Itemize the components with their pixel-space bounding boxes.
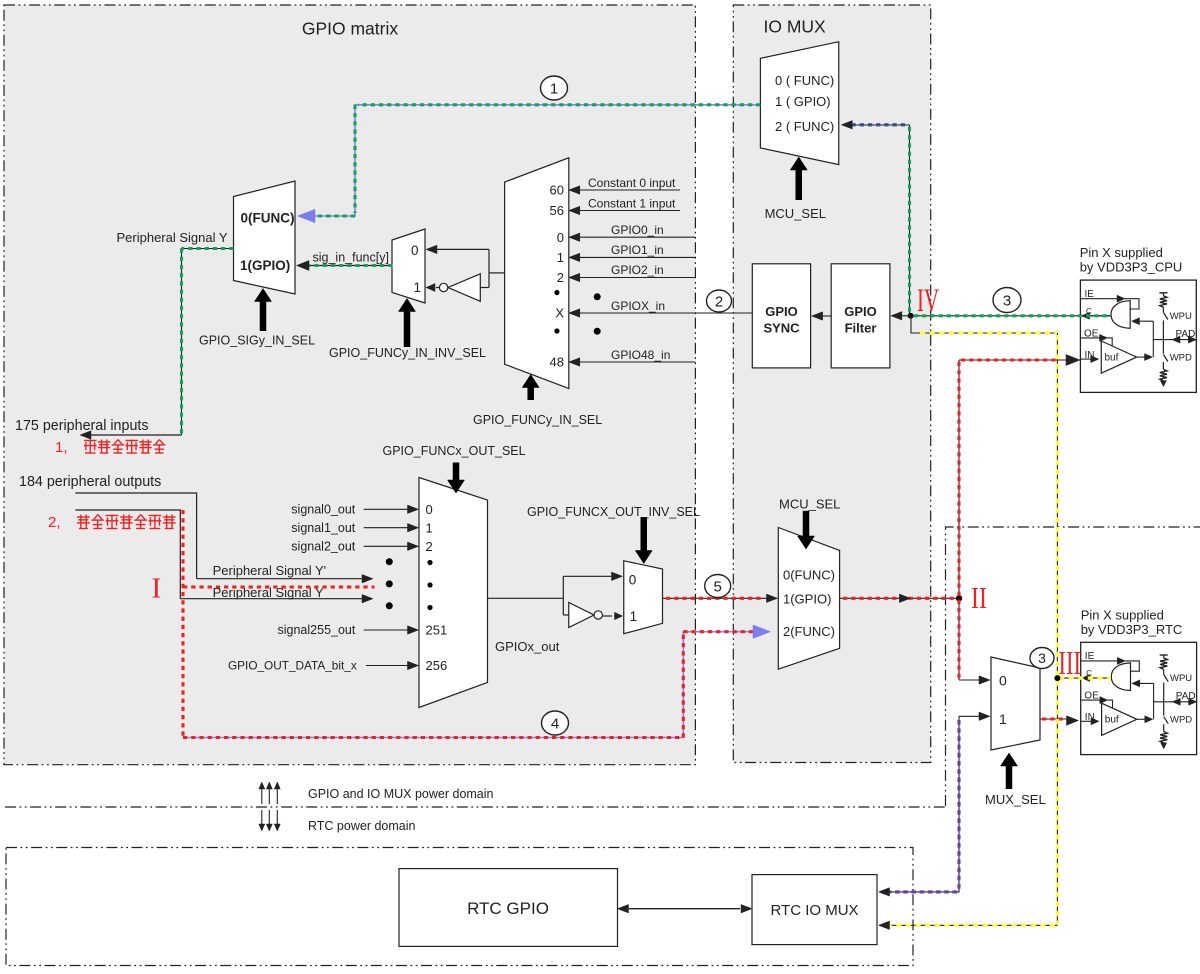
svg-text:MCU_SEL: MCU_SEL	[779, 497, 840, 512]
label GPIO_FUNCy_IN_INV_SEL	[329, 346, 486, 360]
svg-text:Pin X supplied: Pin X supplied	[1081, 608, 1164, 623]
wire RTC GPIO to RTC IO MUX	[618, 904, 753, 913]
svg-text:184 peripheral outputs: 184 peripheral outputs	[19, 474, 161, 490]
svg-text:251: 251	[426, 623, 448, 638]
label 175 peripheral inputs	[15, 418, 149, 434]
svg-text:RTC GPIO: RTC GPIO	[467, 899, 549, 918]
RTC IO MUX block	[752, 875, 877, 945]
node III (red)	[1059, 645, 1082, 682]
input column dots	[594, 293, 601, 334]
svg-text:WPU: WPU	[1170, 673, 1192, 684]
svg-text:GPIO and IO MUX power domain: GPIO and IO MUX power domain	[308, 787, 494, 801]
node II (red)	[971, 580, 987, 615]
mux GPIO_SIGy_IN_SEL labels	[240, 211, 295, 274]
svg-text:GPIO1_in: GPIO1_in	[611, 243, 664, 257]
svg-text:GPIO0_in: GPIO0_in	[611, 223, 664, 237]
GPIO matrix title	[302, 19, 399, 39]
label Peripheral Signal Y (output)	[213, 585, 324, 600]
wire I red vertical	[181, 510, 184, 738]
RTC-domain right box border	[946, 527, 1200, 806]
mux GPIO_FUNCx_OUT_SEL inner dots	[427, 560, 432, 610]
node 2 circled	[707, 290, 732, 312]
label GPIO0_in	[611, 223, 664, 237]
label GPIO and IO MUX power domain	[308, 787, 494, 801]
svg-text:RTC IO MUX: RTC IO MUX	[770, 902, 858, 919]
svg-text:0(FUNC): 0(FUNC)	[783, 568, 835, 583]
power domain up arrows	[259, 782, 281, 804]
mux RTC labels	[999, 673, 1007, 728]
svg-text:GPIO_OUT_DATA_bit_x: GPIO_OUT_DATA_bit_x	[228, 659, 357, 673]
GPIO matrix power-domain box	[4, 5, 695, 765]
svg-text:GPIO: GPIO	[844, 304, 877, 319]
node 3 circled (RTC)	[1030, 648, 1054, 669]
svg-text:signal0_out: signal0_out	[291, 503, 355, 517]
mux IO MUX output labels	[783, 568, 835, 639]
svg-text:60: 60	[550, 183, 564, 198]
svg-text:II: II	[971, 580, 987, 615]
node 5 circled	[705, 575, 731, 598]
mux RTC (MUX_SEL)	[991, 657, 1040, 750]
svg-text:signal1_out: signal1_out	[291, 521, 355, 535]
svg-text:3: 3	[1003, 292, 1011, 309]
label GPIO48_in	[611, 348, 670, 362]
wire red vertical at node II	[958, 360, 960, 680]
svg-text:0: 0	[411, 243, 419, 258]
svg-text:0: 0	[629, 573, 637, 588]
node yellow junction dot	[1054, 675, 1060, 681]
mux GPIO_FUNCy_IN_SEL pin numbers	[550, 183, 565, 370]
node 1 circled	[541, 76, 568, 100]
node II junction dot	[956, 595, 962, 601]
svg-text:by VDD3P3_RTC: by VDD3P3_RTC	[1081, 622, 1183, 637]
svg-text:GPIO48_in: GPIO48_in	[611, 348, 670, 362]
svg-text:PAD: PAD	[1176, 329, 1196, 340]
label GPIO_SIGy_IN_SEL	[199, 334, 315, 348]
svg-text:SYNC: SYNC	[763, 321, 800, 336]
mux GPIO_FUNCy_IN_SEL	[505, 158, 569, 389]
svg-text:GPIO_FUNCy_IN_INV_SEL: GPIO_FUNCy_IN_INV_SEL	[329, 346, 486, 360]
wire 5 to IO MUX out trapezoid	[663, 594, 778, 603]
wire signal1_out	[364, 523, 419, 532]
svg-text:GPIOx_out: GPIOx_out	[495, 639, 560, 654]
svg-text:1: 1	[557, 250, 564, 265]
wire to node II	[840, 594, 959, 603]
wire green vertical	[909, 125, 911, 316]
svg-text:0: 0	[999, 673, 1007, 689]
svg-text:GPIOX_in: GPIOX_in	[611, 299, 665, 313]
wire Peripheral Signal Y (output)	[180, 594, 373, 603]
label MUX_SEL	[985, 792, 1046, 807]
wire Peripheral Signal Y-prime	[197, 574, 373, 583]
svg-text:1: 1	[414, 280, 422, 295]
svg-text:48: 48	[550, 355, 564, 370]
label signal0_out	[291, 503, 355, 517]
svg-text:GPIO2_in: GPIO2_in	[611, 263, 664, 277]
svg-text:0: 0	[557, 230, 564, 245]
wire signal255_out	[364, 626, 419, 635]
svg-text:MCU_SEL: MCU_SEL	[765, 206, 826, 221]
mux GPIO_SIGy_IN_SEL	[234, 181, 296, 294]
svg-text:1: 1	[426, 520, 433, 535]
svg-text:PAD: PAD	[1176, 691, 1196, 702]
wire GPIO_OUT_DATA_bit_x	[366, 661, 419, 670]
mux GPIO_FUNCy_IN_SEL inner dots	[554, 290, 559, 334]
label GPIOX_in	[611, 299, 665, 313]
svg-text:1: 1	[630, 609, 638, 624]
svg-text:2: 2	[426, 539, 433, 554]
mux GPIO_FUNCy_IN_INV_SEL labels	[411, 243, 421, 295]
RTC GPIO block	[399, 869, 618, 947]
svg-text:1: 1	[550, 80, 558, 97]
wire green junction to CPU pad C	[911, 315, 1111, 317]
label GPIO_OUT_DATA_bit_x	[228, 659, 357, 673]
svg-text:WPD: WPD	[1170, 353, 1192, 364]
wire sig_in_func[y]	[297, 261, 393, 271]
wire yellow vertical	[1056, 333, 1058, 925]
wire signal2_out	[364, 542, 419, 551]
svg-text:X: X	[555, 306, 564, 321]
label GPIO1_in	[611, 243, 664, 257]
node IV (red)	[917, 283, 939, 319]
inverter (input path)	[426, 274, 480, 302]
wire peripheral signal Y output (green path)	[182, 249, 234, 436]
svg-text:2 ( FUNC): 2 ( FUNC)	[775, 119, 834, 134]
IO MUX title	[764, 17, 827, 37]
svg-text:WPD: WPD	[1170, 715, 1192, 726]
mux GPIO_FUNCx_OUT_SEL pin numbers	[426, 502, 448, 673]
wire FUNCy out to inv-mux	[426, 245, 505, 287]
svg-text:signal255_out: signal255_out	[278, 623, 356, 637]
wire GPIOX_in	[569, 309, 753, 318]
wire 175 peripheral inputs arrow	[80, 431, 182, 440]
wire signal0_out	[364, 505, 419, 514]
mux GPIO_FUNCX_OUT_INV_SEL labels	[629, 573, 637, 625]
svg-text:2,: 2,	[48, 514, 61, 531]
svg-text:5: 5	[714, 578, 722, 595]
wire to RTC mux input 0	[959, 676, 990, 685]
wire GPIO48_in	[569, 358, 696, 367]
label Peripheral Signal Y (input)	[117, 230, 228, 245]
svg-text:Peripheral Signal Y: Peripheral Signal Y	[117, 230, 228, 245]
label sig_in_func[y]	[313, 251, 389, 265]
svg-text:Peripheral Signal Y': Peripheral Signal Y'	[213, 563, 327, 578]
node 3 circled (CPU)	[993, 288, 1021, 313]
label GPIOx_out	[495, 639, 560, 654]
label MCU_SEL (output)	[779, 497, 840, 512]
svg-text:Constant 1 input: Constant 1 input	[588, 197, 676, 211]
mux IO MUX input (MCU_SEL)	[760, 42, 838, 165]
svg-text:IV: IV	[917, 283, 939, 319]
label MCU_SEL (input)	[765, 206, 826, 221]
svg-text:IO MUX: IO MUX	[764, 17, 827, 37]
svg-text:Pin X supplied: Pin X supplied	[1080, 245, 1163, 260]
wire GPIOx_out routing	[488, 572, 623, 615]
wire 1 IO-MUX to GPIO-matrix (green/blue)	[298, 105, 761, 223]
svg-text:175 peripheral inputs: 175 peripheral inputs	[15, 418, 149, 434]
wire to RTC mux input 1	[959, 712, 990, 721]
select arrow GPIO_FUNCy_IN_INV_SEL	[399, 299, 416, 348]
label GPIO2_in	[611, 263, 664, 277]
svg-text:GPIO_FUNCy_IN_SEL: GPIO_FUNCy_IN_SEL	[473, 413, 602, 427]
svg-text:2: 2	[557, 270, 564, 285]
wire yellow to RTC IO MUX	[879, 921, 1058, 930]
svg-text:GPIO_SIGy_IN_SEL: GPIO_SIGy_IN_SEL	[199, 334, 315, 348]
svg-text:0(FUNC): 0(FUNC)	[241, 211, 295, 226]
wire red to CPU pad IN	[959, 355, 1080, 366]
wire 4 (red/blue) output loop	[183, 625, 771, 738]
label Constant 0 input	[588, 176, 676, 190]
wire peripheral output feed Y-prime	[75, 493, 196, 579]
svg-text:I: I	[152, 573, 162, 605]
svg-text:buf: buf	[1105, 715, 1119, 726]
wire yellow junction branch	[911, 316, 1057, 333]
RTC power-domain bottom box	[6, 848, 913, 966]
annotation 1 (input signal terminal)	[55, 439, 166, 456]
svg-text:III: III	[1059, 645, 1082, 682]
svg-text:WPU: WPU	[1170, 311, 1192, 322]
svg-text:Filter: Filter	[845, 321, 877, 336]
label GPIO_FUNCy_IN_SEL	[473, 413, 602, 427]
label GPIO_FUNCx_OUT_SEL	[383, 444, 526, 458]
svg-text:Constant 0 input: Constant 0 input	[588, 176, 676, 190]
svg-text:GPIO: GPIO	[765, 304, 798, 319]
wire GPIO0_in	[569, 233, 696, 242]
mux GPIO_FUNCx_OUT_SEL	[419, 478, 488, 708]
svg-text:2: 2	[715, 293, 723, 310]
wire GPIO1_in	[569, 253, 696, 262]
mux GPIO_FUNCX_OUT_INV_SEL	[624, 561, 663, 634]
mux GPIO_FUNCy_IN_INV_SEL	[392, 229, 425, 303]
node 4 circled	[542, 711, 569, 735]
node green junction dot	[908, 313, 914, 319]
svg-text:0 ( FUNC): 0 ( FUNC)	[775, 73, 834, 88]
label RTC power domain	[308, 819, 416, 833]
wire green junction to Filter	[891, 312, 911, 321]
svg-text:1(GPIO): 1(GPIO)	[783, 592, 831, 607]
svg-text:256: 256	[426, 658, 448, 673]
pin block VDD3P3_CPU	[1080, 280, 1196, 392]
svg-text:MUX_SEL: MUX_SEL	[985, 792, 1046, 807]
svg-text:0: 0	[426, 502, 433, 517]
svg-text:sig_in_func[y]: sig_in_func[y]	[313, 251, 389, 265]
svg-text:GPIO matrix: GPIO matrix	[302, 19, 399, 39]
svg-text:1,: 1,	[55, 439, 68, 456]
wire GPIO2_in	[569, 273, 696, 282]
select arrow GPIO_FUNCy_IN_SEL	[522, 375, 539, 401]
svg-text:GPIO_FUNCx_OUT_SEL: GPIO_FUNCx_OUT_SEL	[383, 444, 526, 458]
label Pin X supplied (RTC)	[1081, 608, 1183, 638]
label Peripheral Signal Y-prime	[213, 563, 327, 578]
annotation 2 (output signal origin)	[48, 514, 176, 531]
wire navy to IO MUX 2(FUNC)	[841, 121, 909, 130]
wire yellow branch to RTC pad C	[1057, 677, 1111, 679]
wire Filter to SYNC	[812, 312, 832, 321]
label GPIO_FUNCX_OUT_INV_SEL	[527, 505, 700, 519]
power domain down arrows	[259, 810, 281, 831]
svg-text:4: 4	[551, 715, 559, 732]
mux IO MUX input labels	[775, 73, 834, 134]
block GPIO SYNC	[752, 264, 810, 368]
svg-text:1: 1	[999, 711, 1007, 727]
label signal1_out	[291, 521, 355, 535]
select arrow GPIO_SIGy_IN_SEL	[255, 289, 272, 332]
svg-text:GPIO_FUNCX_OUT_INV_SEL: GPIO_FUNCX_OUT_INV_SEL	[527, 505, 700, 519]
select arrow MUX_SEL	[1001, 753, 1018, 789]
wire purple to RTC IO MUX	[879, 716, 960, 896]
block GPIO Filter	[831, 264, 890, 368]
svg-text:buf: buf	[1105, 353, 1119, 364]
wire Constant 1 input	[569, 206, 680, 215]
label Constant 1 input	[588, 197, 676, 211]
label 184 peripheral outputs	[19, 474, 161, 490]
output column dots	[386, 558, 393, 609]
select arrow GPIO_FUNCx_OUT_SEL	[448, 463, 465, 494]
svg-text:2(FUNC): 2(FUNC)	[783, 624, 835, 639]
wire peripheral output feed Y	[75, 510, 180, 599]
wire RTC mux out to RTC pad IN	[1040, 716, 1079, 726]
svg-text:56: 56	[550, 203, 564, 218]
svg-text:signal2_out: signal2_out	[291, 540, 355, 554]
svg-text:1(GPIO): 1(GPIO)	[240, 258, 290, 273]
svg-text:RTC power domain: RTC power domain	[308, 819, 416, 833]
label signal2_out	[291, 540, 355, 554]
label Pin X supplied (CPU)	[1080, 245, 1183, 275]
mux IO MUX output (MCU_SEL)	[778, 528, 839, 670]
label signal255_out	[278, 623, 356, 637]
IO MUX power-domain box	[733, 5, 930, 763]
select arrow MCU_SEL (input)	[790, 157, 807, 200]
pin block VDD3P3_RTC	[1081, 642, 1197, 754]
svg-text:by VDD3P3_CPU: by VDD3P3_CPU	[1080, 260, 1183, 275]
select arrow MCU_SEL (output)	[798, 511, 815, 549]
power domain separation line	[5, 806, 948, 808]
svg-text:1 ( GPIO): 1 ( GPIO)	[775, 94, 831, 109]
node I (red)	[152, 573, 162, 605]
wire Constant 0 input	[569, 186, 680, 195]
select arrow GPIO_FUNCX_OUT_INV_SEL	[635, 517, 652, 564]
svg-text:3: 3	[1038, 650, 1046, 666]
wire I red horizontal branch	[183, 585, 375, 588]
inverter (output path)	[569, 603, 623, 628]
